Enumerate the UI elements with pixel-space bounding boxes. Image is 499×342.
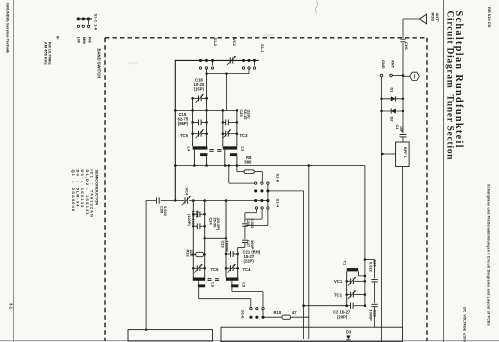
wire antenna bbox=[403, 18, 420, 20]
svg-text:S1-1: S1-1 bbox=[260, 44, 265, 53]
wire T1 right pin bbox=[358, 271, 360, 276]
svg-text:LW: LW bbox=[77, 37, 82, 43]
svg-text:CH1: CH1 bbox=[404, 42, 409, 51]
svg-text:GRUNDIG Service-Technik: GRUNDIG Service-Technik bbox=[6, 3, 11, 54]
switch S1-1 contacts bbox=[242, 67, 244, 69]
rail col D right bbox=[237, 248, 239, 278]
svg-text:VC3: VC3 bbox=[232, 38, 237, 47]
switch S1-4 wiper bbox=[267, 201, 269, 207]
rail col B right bbox=[236, 110, 238, 146]
wire S1-8 first contact feed bbox=[228, 166, 230, 184]
rail col A left bbox=[192, 98, 194, 146]
svg-text:(15P): (15P) bbox=[194, 87, 205, 92]
svg-text:S1-4: S1-4 bbox=[276, 199, 281, 208]
svg-text:D3: D3 bbox=[346, 330, 352, 335]
svg-text:L6: L6 bbox=[211, 282, 216, 287]
connector CH1 ticks bbox=[400, 38, 405, 40]
switch S1-8 contacts bbox=[255, 182, 257, 184]
svg-text:S1-2: S1-2 bbox=[213, 38, 218, 47]
legend wiper stub bbox=[87, 19, 89, 24]
wire S1-4 c3 bbox=[267, 209, 269, 226]
bandpass filter BPF1 bbox=[396, 142, 410, 167]
svg-text:ANT: ANT bbox=[391, 60, 396, 69]
wire ANT link bbox=[392, 75, 403, 77]
switch S1-2 dots bbox=[199, 59, 202, 62]
wire GND down bbox=[381, 77, 383, 341]
wire ground bus bbox=[175, 165, 365, 167]
svg-text:BPF 1: BPF 1 bbox=[403, 147, 407, 158]
varcap VC3 bbox=[229, 57, 231, 63]
wire vert A bbox=[308, 166, 310, 340]
switch S1-2 contacts bbox=[199, 67, 201, 69]
diode D2 bbox=[382, 110, 404, 112]
svg-text:L3: L3 bbox=[241, 147, 246, 152]
svg-text:(56P): (56P) bbox=[178, 121, 189, 126]
svg-text:T1: T1 bbox=[343, 261, 348, 266]
switch S1-4 contacts bbox=[255, 207, 257, 209]
svg-text:TC6: TC6 bbox=[211, 267, 220, 272]
capacitor C21 bbox=[226, 253, 231, 255]
switch S1-2 wiper bbox=[212, 60, 214, 65]
left margin rule bbox=[13, 0, 15, 342]
svg-text:L5: L5 bbox=[242, 282, 247, 287]
core marks bbox=[209, 149, 213, 151]
svg-text:DC VOLTAGE ±10%: DC VOLTAGE ±10% bbox=[463, 307, 467, 342]
switch S1-6 dots bbox=[249, 316, 252, 319]
wire col D m2 bbox=[244, 243, 246, 248]
svg-text:Schaltpläne und Plattenabbildu: Schaltpläne und Plattenabbildungen / Cir… bbox=[487, 184, 491, 326]
block IF amplifier bbox=[221, 327, 403, 341]
capacitor C19 bbox=[193, 121, 199, 123]
svg-text:1000P: 1000P bbox=[369, 310, 374, 322]
wire AM left drop bbox=[145, 201, 147, 330]
diode D3 bbox=[346, 336, 351, 340]
svg-text:S1-8: S1-8 bbox=[276, 174, 281, 183]
capacitor C1 bbox=[400, 134, 407, 136]
wire C1 to BPF bbox=[402, 137, 404, 142]
svg-text:D2: D2 bbox=[390, 117, 395, 123]
svg-text:D1: D1 bbox=[390, 88, 395, 94]
wire S1-2 to S1-1 bbox=[206, 69, 208, 74]
terminal GND bbox=[380, 74, 383, 77]
svg-text:GND: GND bbox=[381, 60, 386, 69]
svg-text:ANT°: ANT° bbox=[435, 13, 440, 23]
resistor R10 bbox=[282, 315, 291, 319]
svg-text:IF: IF bbox=[56, 36, 61, 40]
wire col D m1 bbox=[244, 226, 246, 239]
wire FM bus bbox=[175, 59, 258, 61]
svg-text:L4: L4 bbox=[187, 147, 192, 152]
terminal ANT bbox=[390, 74, 393, 77]
capacitor C27 bbox=[242, 239, 248, 241]
svg-text:(120P): (120P) bbox=[187, 214, 192, 226]
switch S1-8 wiper bbox=[267, 184, 269, 189]
svg-text:15P: 15P bbox=[399, 126, 403, 133]
capacitor C33 bbox=[371, 303, 377, 305]
svg-text:RR 610 CD: RR 610 CD bbox=[487, 7, 492, 28]
trimmer TC6 bbox=[193, 267, 197, 269]
svg-text:Circuit Diagram Tuner Section: Circuit Diagram Tuner Section bbox=[445, 11, 455, 161]
varcap VC1 bbox=[347, 280, 351, 282]
junction dots ground bus bbox=[174, 164, 177, 167]
rail T1 left bbox=[346, 271, 348, 305]
dashed frame left bbox=[104, 38, 106, 341]
svg-text:1800P: 1800P bbox=[224, 241, 229, 253]
switch S1-4 dots bbox=[254, 199, 257, 202]
rod antenna bbox=[420, 14, 427, 24]
switch S1-1 dots bbox=[242, 59, 245, 62]
svg-text:MW: MW bbox=[82, 37, 87, 44]
transformer T1 bbox=[347, 268, 359, 271]
svg-text:22K: 22K bbox=[189, 250, 194, 257]
svg-text:0.022: 0.022 bbox=[250, 219, 255, 230]
inductor L4 bbox=[193, 146, 208, 149]
right margin rule bbox=[443, 0, 445, 342]
inductor L5 bbox=[226, 278, 238, 281]
rail col B left bbox=[222, 110, 224, 146]
resistor R8 bbox=[244, 170, 254, 174]
svg-text:FM: FM bbox=[88, 37, 93, 43]
crossbar bbox=[175, 109, 237, 111]
svg-text:47: 47 bbox=[292, 310, 297, 315]
trimmer TC4 bbox=[226, 267, 231, 269]
switch S1-8 dots bbox=[254, 189, 257, 192]
rail col C left bbox=[192, 201, 194, 278]
wire C2 out bbox=[354, 305, 365, 307]
wire R8 out bbox=[254, 171, 262, 173]
capacitor C25 bbox=[223, 121, 226, 123]
resistor R16 bbox=[196, 252, 204, 256]
wire C2 bus bbox=[304, 305, 350, 307]
svg-text:VC4: VC4 bbox=[185, 188, 190, 197]
hexagon balun bbox=[410, 72, 420, 80]
svg-text:(22P): (22P) bbox=[244, 259, 255, 264]
trimmer TC5 bbox=[193, 133, 199, 135]
varcap VC4 bbox=[184, 196, 189, 204]
switch S1-6 contacts bbox=[250, 307, 252, 309]
trimmer C18 jumper bbox=[193, 97, 199, 99]
dashed frame right bbox=[426, 38, 428, 341]
svg-text:(25.5P): (25.5P) bbox=[216, 218, 221, 231]
wire R8 feed bbox=[236, 166, 238, 172]
svg-text:560: 560 bbox=[244, 159, 252, 164]
wire C33 down bbox=[374, 307, 376, 327]
svg-text:S1-1 1-6: S1-1 1-6 bbox=[94, 14, 99, 31]
svg-text:BAND SWITCH: BAND SWITCH bbox=[97, 49, 102, 79]
trimmer TC3 bbox=[223, 133, 226, 135]
svg-text:0.022: 0.022 bbox=[163, 206, 168, 217]
svg-text:3-1: 3-1 bbox=[9, 303, 14, 310]
scan smudge bbox=[262, 34, 274, 37]
wire S1-8 out bbox=[268, 190, 304, 192]
legend contact dots bbox=[77, 17, 80, 20]
wire AM gnd bus L6 bbox=[199, 298, 251, 300]
wire S1-4 c1 bbox=[255, 209, 257, 213]
link S1-8 S1-4 bbox=[267, 191, 269, 201]
cross link C-D bbox=[205, 237, 226, 239]
capacitor C28 bbox=[156, 196, 161, 204]
svg-text:AM 455 KHz: AM 455 KHz bbox=[44, 42, 49, 65]
svg-text:TC1: TC1 bbox=[334, 293, 343, 298]
wire AM gnd bus L5 bbox=[232, 291, 263, 293]
capacitor C26 bbox=[242, 223, 248, 225]
dashed frame top bbox=[105, 37, 427, 39]
bottom page edge bbox=[0, 340, 499, 342]
core marks AM bbox=[208, 278, 212, 280]
wire col D riser bbox=[244, 213, 246, 223]
wire C30 branch bbox=[365, 259, 375, 261]
svg-text:TC5: TC5 bbox=[180, 133, 189, 138]
scan scratch bbox=[315, 1, 317, 13]
rail col C right bbox=[204, 201, 206, 278]
svg-text:(110): (110) bbox=[247, 110, 252, 120]
inductor L3 bbox=[223, 146, 237, 149]
rail col A right bbox=[206, 74, 208, 147]
capacitor C22a bbox=[193, 213, 197, 215]
trimmer TC1 bbox=[347, 294, 351, 296]
svg-text:R10: R10 bbox=[274, 310, 282, 315]
wire R10 out bbox=[291, 316, 309, 318]
svg-text:ROD: ROD bbox=[431, 13, 436, 22]
capacitor C30 bbox=[371, 279, 377, 281]
switch S1-1 wiper bbox=[254, 60, 256, 65]
svg-text:360P: 360P bbox=[250, 240, 255, 249]
svg-text:(20P): (20P) bbox=[337, 315, 348, 320]
wire AM bus bbox=[146, 200, 268, 202]
wire to C1 bbox=[402, 99, 404, 134]
svg-text:0.022: 0.022 bbox=[369, 262, 374, 273]
switch S1-6 wiper bbox=[262, 310, 264, 316]
capacitor C2 bbox=[350, 303, 352, 309]
capacitor C22b bbox=[193, 225, 197, 227]
wire S1-4 c2 bbox=[261, 209, 263, 219]
svg-text:Q1 : 2SA5048: Q1 : 2SA5048 bbox=[71, 170, 76, 213]
diode D1 bbox=[382, 98, 404, 100]
wire BPF input stub bbox=[382, 153, 395, 155]
rail col D left bbox=[225, 201, 227, 278]
block keyboard unit bbox=[128, 330, 213, 341]
legend switch line bbox=[77, 18, 93, 20]
wire C30 mid bbox=[374, 282, 376, 303]
wire col B feed bbox=[226, 74, 228, 111]
wire gnd riser bbox=[364, 166, 366, 306]
svg-text:TC4: TC4 bbox=[243, 267, 252, 272]
wire S1-6 out bbox=[263, 316, 282, 318]
svg-text:TC3: TC3 bbox=[240, 133, 249, 138]
wire antenna down bbox=[402, 43, 404, 99]
svg-text:VC1: VC1 bbox=[334, 279, 343, 284]
wire BPF out bbox=[401, 167, 403, 328]
junction dot AM bus bbox=[174, 199, 176, 201]
inductor L6 bbox=[193, 278, 205, 281]
svg-text:S1-6: S1-6 bbox=[241, 310, 246, 319]
legend open contacts bbox=[77, 25, 79, 27]
wire left rail bbox=[174, 60, 176, 201]
